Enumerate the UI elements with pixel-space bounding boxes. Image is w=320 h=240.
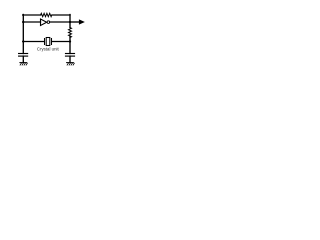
svg-text:Crystal unit: Crystal unit [37, 47, 60, 52]
